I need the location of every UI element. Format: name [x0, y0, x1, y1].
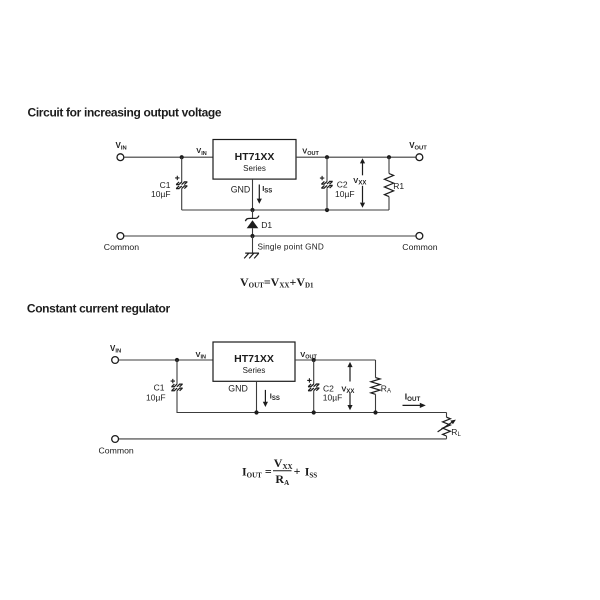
svg-text:C1: C1: [154, 382, 165, 392]
junction: C2 tap on VOUT rail (circuit 2): [312, 358, 316, 362]
capacitor C2 (circuit 1): [321, 181, 332, 188]
label: C2 reference (circuit 2): [323, 383, 334, 393]
label: IOUT (circuit 2): [405, 391, 421, 403]
junction: C2 tap on VOUT rail (circuit 1): [325, 155, 329, 159]
svg-text:10µF: 10µF: [323, 392, 343, 402]
svg-text:10µF: 10µF: [151, 189, 171, 199]
junction: GND pin on ground rail (circuit 2): [254, 410, 258, 414]
svg-text:HT71XX: HT71XX: [235, 151, 275, 163]
wire: U2 VOUT pin to RA top (circuit 2): [295, 359, 376, 361]
wire: C1 lower lead to ground rail (circuit 2): [176, 391, 178, 413]
svg-text:Common: Common: [402, 242, 437, 252]
wire: R1 lower lead (circuit 1): [388, 197, 390, 210]
svg-text:10µF: 10µF: [146, 392, 166, 402]
section title: Circuit for increasing output voltage: [28, 106, 222, 120]
pin label VOUT of U1 (circuit 1): [302, 146, 319, 157]
label: C2 value 10uF (circuit 2): [323, 392, 343, 402]
wire: internal ground rail (circuit 1): [182, 209, 389, 211]
pin label GND of U2 (circuit 2): [228, 383, 248, 393]
wire: U1 VOUT pin to VOUT terminal (circuit 1): [296, 156, 416, 158]
wire: common return line (circuit 2): [119, 438, 447, 440]
node VIN label (circuit 1): [116, 141, 127, 152]
label: VXX (circuit 2): [341, 385, 354, 396]
ground symbol: single point GND (circuit 1): [244, 253, 259, 258]
voltage annotation arrow VXX (circuit 1): [360, 158, 365, 208]
wire: C2 lower lead (circuit 1): [326, 188, 328, 210]
wire: common rail (circuit 1): [124, 235, 416, 237]
section title: Constant current regulator: [27, 302, 171, 316]
svg-text:+: +: [294, 464, 301, 478]
wire: C1 upper lead (circuit 2): [176, 360, 178, 384]
wire: C2 upper lead (circuit 1): [326, 157, 328, 181]
capacitor C2 (circuit 2): [308, 384, 319, 391]
junction: RA on ground rail (circuit 2): [373, 410, 377, 414]
wire: RL upper lead with corner (circuit 2): [446, 413, 448, 418]
label: R1 reference (circuit 1): [393, 181, 404, 191]
label: RL reference (circuit 2): [451, 427, 461, 438]
resistor RL variable load (circuit 2): [438, 417, 456, 436]
wire: C1 upper lead (circuit 1): [181, 157, 183, 182]
label: ISS (circuit 2): [270, 392, 280, 403]
junction: C1 tap on VIN rail (circuit 2): [175, 358, 179, 362]
svg-text:Common: Common: [99, 445, 134, 455]
terminal VIN (circuit 2): [112, 357, 119, 364]
svg-text:HT71XX: HT71XX: [234, 353, 274, 365]
svg-text:Circuit for increasing output: Circuit for increasing output voltage: [28, 106, 222, 120]
label: VXX (circuit 1): [353, 176, 366, 187]
wire: VIN terminal to U2 VIN pin (circuit 2): [119, 359, 214, 361]
capacitor C1 (circuit 2): [171, 384, 182, 391]
svg-text:R1: R1: [393, 181, 404, 191]
junction: C2 on ground rail (circuit 1): [325, 208, 329, 212]
junction: R1 tap on VOUT rail (circuit 1): [387, 155, 391, 159]
label: C1 reference (circuit 2): [154, 382, 165, 392]
svg-text:GND: GND: [231, 184, 251, 194]
label: C2 reference (circuit 1): [337, 180, 348, 190]
wire: R1 upper lead (circuit 1): [388, 157, 390, 173]
svg-text:Common: Common: [104, 242, 139, 252]
node VIN label (circuit 2): [110, 344, 121, 355]
junction: D1 on common rail (circuit 1): [250, 234, 254, 238]
wire: C1 lower lead to ground rail (circuit 1): [181, 189, 183, 210]
wire: C2 lower lead (circuit 2): [313, 391, 315, 413]
wire: RA lower lead (circuit 2): [375, 394, 377, 412]
current arrow ISS (circuit 1): [257, 185, 262, 204]
label: Single point GND (circuit 1): [258, 242, 324, 251]
label: C1 value 10uF (circuit 1): [151, 189, 171, 199]
wire: single point ground stem (circuit 1): [252, 236, 254, 253]
svg-text:GND: GND: [228, 383, 248, 393]
current arrow IOUT (circuit 2): [403, 403, 426, 408]
terminal VOUT (circuit 1): [416, 154, 423, 161]
terminal Common left (circuit 1): [117, 233, 124, 240]
junction: C2 on ground rail (circuit 2): [312, 410, 316, 414]
pin label VIN of U2 (circuit 2): [196, 350, 207, 361]
terminal Common (circuit 2): [112, 436, 119, 443]
terminal Common right (circuit 1): [416, 233, 423, 240]
label: C2 value 10uF (circuit 1): [335, 189, 355, 199]
wire: U1 GND pin lead (circuit 1): [252, 179, 254, 210]
capacitor C1 polarity plus (circuit 2): [171, 379, 175, 383]
formula: VOUT = VXX + VD1 (circuit 1): [240, 275, 314, 290]
op-amp U1 HT71XX regulator body (circuit 1): [213, 140, 296, 180]
op-amp U2 HT71XX regulator body (circuit 2): [213, 342, 295, 381]
capacitor C1 polarity plus (circuit 1): [175, 176, 179, 180]
wire: D1 cathode to common rail (circuit 1): [252, 228, 254, 236]
svg-text:Single point GND: Single point GND: [258, 242, 324, 251]
resistor RA (circuit 2): [371, 378, 380, 395]
wire: U2 GND pin lead (circuit 2): [256, 381, 258, 412]
label: ISS (circuit 1): [262, 184, 272, 195]
label: Common (circuit 2): [99, 445, 134, 455]
label: D1 reference (circuit 1): [261, 220, 272, 230]
svg-text:10µF: 10µF: [335, 189, 355, 199]
label: RA reference (circuit 2): [381, 383, 391, 394]
wire: C2 upper lead (circuit 2): [313, 360, 315, 384]
svg-text:Series: Series: [243, 164, 266, 173]
svg-text:Constant current regulator: Constant current regulator: [27, 302, 171, 316]
pin label VOUT of U2 (circuit 2): [300, 350, 317, 361]
voltage annotation arrow VXX (circuit 2): [347, 362, 352, 410]
junction: C1 tap on VIN rail (circuit 1): [180, 155, 184, 159]
label: Common left (circuit 1): [104, 242, 139, 252]
wire: RL lower lead (circuit 2): [446, 436, 448, 439]
diode D1 (circuit 1): [245, 216, 259, 229]
wire: ground rail to D1 anode... D1 upper lead (circuit 1): [252, 210, 254, 218]
terminal VIN (circuit 1): [117, 154, 124, 161]
label: Common right (circuit 1): [402, 242, 437, 252]
node VOUT label (circuit 1): [409, 141, 427, 152]
svg-text:Series: Series: [243, 366, 266, 375]
capacitor C2 polarity plus (circuit 2): [307, 378, 311, 382]
wire: RA upper lead (circuit 2): [375, 360, 377, 378]
svg-text:D1: D1: [261, 220, 272, 230]
current arrow ISS (circuit 2): [263, 390, 268, 407]
formula: IOUT = VXX / RA + ISS (circuit 2): [242, 456, 317, 487]
label: C1 value 10uF (circuit 2): [146, 392, 166, 402]
resistor R1 (circuit 1): [384, 174, 393, 197]
wire: ground rail extended to RL (circuit 2): [177, 412, 447, 414]
capacitor C1 (circuit 1): [176, 182, 187, 189]
pin label VIN of U1 (circuit 1): [196, 146, 207, 157]
junction: GND pin on ground rail (circuit 1): [250, 208, 254, 212]
pin label GND of U1 (circuit 1): [231, 184, 251, 194]
label: C1 reference (circuit 1): [160, 180, 171, 190]
capacitor C2 polarity plus (circuit 1): [320, 176, 324, 180]
wire: VIN terminal to U1 VIN pin (circuit 1): [124, 156, 213, 158]
